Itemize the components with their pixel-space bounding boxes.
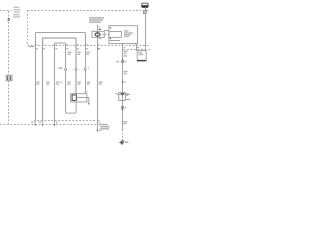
pin texts below instrument panel boundary	[29, 46, 88, 50]
wire end arrow shield wire	[96, 130, 98, 132]
connector pin text	[124, 82, 126, 83]
shield wire vertical	[97, 25, 99, 131]
connector text	[124, 107, 126, 108]
shield oval box	[92, 31, 104, 37]
connector texts	[116, 61, 119, 62]
antenna wire down	[145, 14, 147, 51]
module pin tick upper	[110, 27, 111, 28]
splice bus upper branch	[117, 94, 130, 96]
harness boundary top-left dashed line	[0, 10, 12, 12]
stub wire right of motor box	[87, 98, 89, 104]
motor element	[72, 95, 76, 101]
shield dashed lead to module	[100, 34, 109, 36]
module output wire down	[136, 43, 138, 50]
antenna lead upper	[145, 8, 147, 11]
connector row label	[58, 67, 62, 69]
inline connector box on left dashed boundary	[6, 75, 12, 81]
ground wire dashed segment	[122, 130, 124, 141]
wire gauge labels mid run	[36, 81, 102, 84]
ground label	[124, 141, 128, 143]
motor internal lead	[76, 97, 87, 99]
bottom harness dashed line A	[34, 121, 100, 124]
dark pin tick shield wire	[98, 48, 100, 50]
wire label right mid	[124, 51, 128, 54]
bottom harness labels	[99, 124, 110, 131]
wire 2 run with bridge	[43, 38, 77, 121]
bottom harness dashed line B	[0, 124, 97, 126]
radio module box	[109, 26, 137, 44]
pin text below boundary at module wire	[137, 47, 139, 48]
fuse box dark base	[137, 60, 146, 61]
wire end connector w2	[38, 120, 43, 126]
pin ticks above boundary	[36, 44, 100, 45]
module inner box	[109, 31, 121, 37]
pin text below oval box	[99, 38, 101, 39]
inline connector arrow on ground wire	[122, 81, 124, 83]
inline connector lower on ground wire	[121, 106, 123, 110]
wire label right of wire3 below boundary	[68, 52, 72, 55]
pin text above boundary at module wire	[135, 44, 138, 45]
pin texts at boundary crossing	[121, 45, 123, 46]
wire into module upper pin	[104, 30, 109, 32]
antenna inline connector box	[143, 10, 146, 13]
pin text right of shield wire top	[99, 26, 100, 27]
inline connector row circle 3	[84, 68, 86, 72]
wire end connector w1	[31, 120, 36, 126]
splice left tick	[115, 93, 117, 94]
harness boundary left vertical dashed	[8, 11, 10, 124]
instrument panel dashed box	[28, 11, 151, 46]
dashed boundary right mid	[124, 49, 151, 51]
fuse box	[137, 51, 146, 61]
upper wire labels	[77, 52, 90, 55]
inline connector row circle 1	[65, 68, 67, 72]
module inner bar	[110, 40, 121, 42]
wire label on ground wire mid	[124, 71, 128, 74]
motor box	[71, 94, 87, 102]
stub arrow	[88, 103, 90, 105]
inline connector row tie line	[62, 68, 89, 70]
antenna connector top right	[142, 3, 148, 7]
inline connector row circle 2	[75, 68, 77, 72]
wire 1 run with bridge	[36, 33, 86, 121]
connector name label	[124, 55, 128, 57]
ground wire label	[123, 121, 127, 124]
shield oval	[95, 33, 100, 36]
splice arrow	[121, 94, 124, 96]
module label text	[89, 17, 104, 23]
ground wire vertical	[122, 43, 124, 129]
label text top-left	[13, 7, 20, 18]
wire 3 run with bridge	[55, 43, 77, 124]
module internal text	[124, 30, 133, 37]
splice bus lower branch	[125, 99, 130, 101]
wire end arrow w3	[54, 124, 56, 126]
grid ref dark label	[8, 18, 10, 19]
fuse box text	[138, 52, 143, 55]
splice pack box	[119, 93, 126, 101]
pin text above oval box	[99, 29, 101, 30]
pin label above motor box right	[85, 91, 88, 92]
wire end text w3	[56, 122, 58, 124]
connector row tick	[88, 68, 89, 69]
ground symbol G	[119, 141, 123, 144]
inline connector on ground wire	[121, 59, 123, 63]
splice text	[125, 93, 129, 96]
module pin tick lower	[110, 38, 111, 39]
